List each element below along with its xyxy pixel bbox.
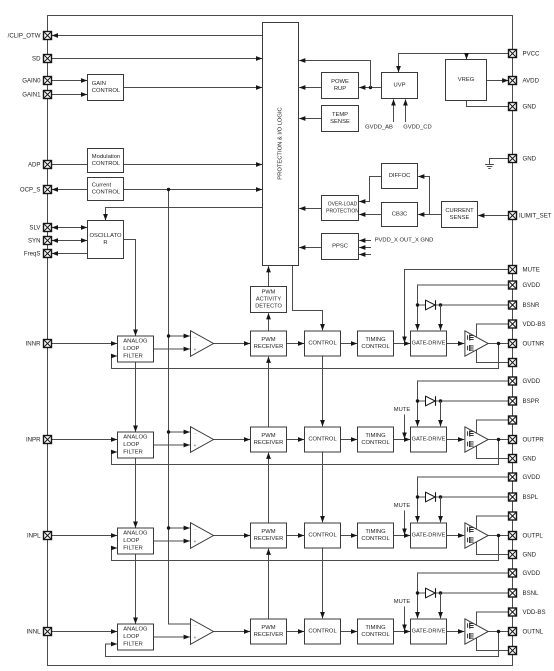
wire PVCC pin to UVP top xyxy=(399,54,509,73)
wire VREG output to AVDD pin xyxy=(487,80,509,82)
svg-text:CONTROL: CONTROL xyxy=(92,161,121,167)
wire SYN pin to oscillator (bidirectional) xyxy=(52,240,87,242)
svg-text:CONTROL: CONTROL xyxy=(308,341,337,347)
svg-text:ANALOG: ANALOG xyxy=(123,531,148,537)
wire bootstrap to gate-drive 3 top xyxy=(440,497,442,522)
wire GAIN0 pin to gain control xyxy=(52,80,88,82)
svg-text:TIMING: TIMING xyxy=(365,337,386,343)
svg-text:GND: GND xyxy=(523,155,537,162)
junction UVP output branch xyxy=(369,86,372,89)
svg-text:PWM: PWM xyxy=(261,625,275,631)
wire comparator 2 output to PWM receiver 2 xyxy=(214,439,251,441)
junction BSNR line / diode cathode row 1 xyxy=(439,303,442,306)
wire PWM receiver 2 to control 2 xyxy=(287,439,305,441)
wire bootstrap to gate-drive 1 top xyxy=(440,305,442,330)
svg-text:CONTROL: CONTROL xyxy=(361,344,390,350)
svg-text:GVDD: GVDD xyxy=(523,570,541,577)
pin (unlabeled) xyxy=(509,512,517,520)
diode bootstrap D2 xyxy=(426,396,436,406)
svg-text:FILTER: FILTER xyxy=(123,353,143,359)
wire control bus 1 to 2 xyxy=(322,356,324,426)
wire BSPR pin to bootstrap diode 2 cathode xyxy=(436,400,509,402)
svg-text:FILTER: FILTER xyxy=(123,545,143,551)
wire gate-drive 4 to output stage 4 xyxy=(447,631,465,633)
pin GAIN1 xyxy=(44,91,52,99)
svg-text:PWM: PWM xyxy=(261,529,275,535)
junction OUTNR feedback tap xyxy=(497,342,500,345)
wire comparator 4 output to PWM receiver 4 xyxy=(214,631,251,633)
wire protection logic down to control 1 xyxy=(293,266,323,331)
wire output-stage supply bracket row 1 xyxy=(477,324,509,363)
block gate-drive 4 xyxy=(411,619,447,644)
pin ADP xyxy=(44,161,52,169)
svg-text:PWM: PWM xyxy=(261,433,275,439)
svg-text:OUTPL: OUTPL xyxy=(523,532,544,539)
svg-text:CURRENT: CURRENT xyxy=(445,208,474,214)
svg-text:+: + xyxy=(194,443,197,448)
pin /CLIP_OTW xyxy=(44,32,52,40)
wire analog loop filter 1 to comparator 1 non-inverting input xyxy=(154,348,190,350)
block PWM receiver 3 xyxy=(251,523,287,548)
pin AVDD xyxy=(509,77,517,85)
wire PWM receiver 1 to control 1 xyxy=(287,343,305,345)
pin OUTNL xyxy=(509,628,517,636)
wire IN pin to analog loop filter 1 xyxy=(52,343,118,345)
wire bootstrap to gate-drive 4 top xyxy=(440,593,442,618)
wire PWM receiver 1 to activity detector xyxy=(268,313,270,331)
svg-text:RECEIVER: RECEIVER xyxy=(254,536,284,542)
ground symbol xyxy=(485,165,494,169)
svg-text:INNR: INNR xyxy=(26,340,41,347)
output power stage 2 xyxy=(465,427,488,452)
wire gate-drive 2 to output stage 2 xyxy=(447,439,465,441)
svg-text:CONTROL: CONTROL xyxy=(308,437,337,443)
pin GND xyxy=(509,455,517,463)
svg-text:RUP: RUP xyxy=(334,86,346,92)
pin BSPR xyxy=(509,397,517,405)
wire protection logic to oscillator top xyxy=(106,208,263,221)
wire UVP output to power-up block xyxy=(359,87,381,89)
wire UVP branch to protection logic xyxy=(299,61,370,88)
svg-text:BSPR: BSPR xyxy=(523,398,540,405)
wire GND pin to ground symbol xyxy=(490,159,509,164)
comparator 4 xyxy=(191,619,214,645)
svg-text:GATE-DRIVE: GATE-DRIVE xyxy=(412,629,446,635)
svg-text:+: + xyxy=(194,539,197,544)
svg-text:ACTIVITY: ACTIVITY xyxy=(256,297,281,303)
svg-text:PWM: PWM xyxy=(261,337,275,343)
wire GVDD_AB input to UVP bottom xyxy=(393,99,395,122)
pin PVCC xyxy=(509,50,517,58)
wire feedback from OUTPL to analog loop filter 3 xyxy=(112,536,499,561)
diode bootstrap D4 xyxy=(426,588,436,598)
pin GVDD xyxy=(509,281,517,289)
svg-text:Modulation: Modulation xyxy=(92,154,120,160)
pin VDD-BS xyxy=(509,608,517,616)
wire GVDD pin to gate-drive 1 top xyxy=(418,285,509,330)
pin OUTPR xyxy=(509,436,517,444)
wire GAIN1 pin to gain control xyxy=(52,94,88,96)
wire bootstrap diode 3 anode to GVDD line xyxy=(418,496,426,498)
wire SD pin to protection logic xyxy=(52,58,263,60)
svg-text:/CLIP_OTW: /CLIP_OTW xyxy=(8,32,41,39)
svg-text:CB3C: CB3C xyxy=(392,212,407,218)
svg-text:PVCC: PVCC xyxy=(523,50,541,57)
wire BSNR pin to bootstrap diode 1 cathode xyxy=(436,304,509,306)
svg-text:OCP_S: OCP_S xyxy=(20,186,41,193)
wire bootstrap diode 4 anode to GVDD line xyxy=(418,592,426,594)
block analog loop filter 1 xyxy=(118,336,154,362)
wire PVCC branch down to VREG top xyxy=(466,54,468,60)
svg-text:VREG: VREG xyxy=(458,77,475,83)
comparator 1 xyxy=(191,331,214,357)
diode bootstrap D3 xyxy=(426,492,436,502)
wire current bus branch to comparator 2 inverting input xyxy=(169,431,190,433)
svg-text:R: R xyxy=(103,240,107,246)
junction BSPR line / diode cathode row 2 xyxy=(439,399,442,402)
wire gain control output to protection logic xyxy=(124,87,263,89)
wire gate-drive 1 to output stage 1 xyxy=(447,343,465,345)
junction current bus row 3 xyxy=(167,526,170,529)
wire current sense output to CB3C xyxy=(418,214,441,216)
pin INPL xyxy=(44,532,52,540)
wire feedback from OUTPR to analog loop filter 2 xyxy=(112,440,499,465)
wire PWM activity detector to protection logic bottom xyxy=(268,266,270,286)
wire BSNL pin to bootstrap diode 4 cathode xyxy=(436,592,509,594)
block gain control xyxy=(88,75,124,101)
wire output stage 1 to OUTNR pin xyxy=(488,343,508,345)
wire current sense branch to DIFFOC xyxy=(418,177,429,215)
wire MUTE into gate-drive 2 input xyxy=(404,415,406,439)
wire control 1 to timing control 1 xyxy=(341,343,358,345)
svg-text:ANALOG: ANALOG xyxy=(123,435,148,441)
block control 4 xyxy=(305,619,341,644)
block timing control 4 xyxy=(358,619,394,644)
svg-text:+: + xyxy=(194,347,197,352)
svg-text:INPL: INPL xyxy=(27,532,41,539)
output power stage 4 xyxy=(465,619,488,644)
wire output stage 4 to OUTNL pin xyxy=(488,631,508,633)
wire GVDD pin to gate-drive 4 top xyxy=(418,573,509,618)
wire PWM receiver 4 to control 4 xyxy=(287,631,305,633)
wire output-stage supply bracket row 3 xyxy=(477,516,509,555)
svg-text:CONTROL: CONTROL xyxy=(361,440,390,446)
junction BSNL line / diode cathode row 4 xyxy=(439,591,442,594)
svg-text:LOOP: LOOP xyxy=(123,538,139,544)
svg-text:PPSC: PPSC xyxy=(332,244,348,250)
svg-text:CONTROL: CONTROL xyxy=(308,629,337,635)
block temp sense xyxy=(322,106,359,132)
wire current control output to OCP_S pin xyxy=(52,189,88,191)
block oscillator xyxy=(88,221,124,259)
pin SLV xyxy=(44,224,52,232)
wire oscillator output down to analog loop filter 1 xyxy=(124,240,136,336)
wire BSPL pin to bootstrap diode 3 cathode xyxy=(436,496,509,498)
wire bootstrap diode 2 anode to GVDD line xyxy=(418,400,426,402)
block over-load protection xyxy=(322,196,360,221)
wire timing control 4 to gate-drive 4 xyxy=(394,631,411,633)
block analog loop filter 3 xyxy=(118,528,154,554)
block UVP xyxy=(382,73,418,99)
junction GVDD line / diode anode row 4 xyxy=(416,591,419,594)
wire current bus branch to comparator 3 inverting input xyxy=(169,527,190,529)
svg-text:CONTROL: CONTROL xyxy=(92,88,121,94)
svg-text:GND: GND xyxy=(523,103,537,110)
wire DIFFOC output to over-load protection xyxy=(359,177,381,202)
wire output stage 2 to OUTPR pin xyxy=(488,439,508,441)
svg-text:CONTROL: CONTROL xyxy=(361,632,390,638)
block gate-drive 1 xyxy=(411,331,447,356)
wire PWM receiver 4 up to PWM receiver 3 xyxy=(268,549,270,619)
svg-text:TIMING: TIMING xyxy=(365,529,386,535)
svg-text:OUTNL: OUTNL xyxy=(523,628,544,635)
svg-text:GATE-DRIVE: GATE-DRIVE xyxy=(412,533,446,539)
pin GAIN0 xyxy=(44,77,52,85)
svg-text:CONTROL: CONTROL xyxy=(92,190,121,196)
wire analog loop filter 3 to comparator 3 non-inverting input xyxy=(154,540,190,542)
wire output-stage supply bracket row 4 xyxy=(477,612,509,651)
svg-text:POWE: POWE xyxy=(331,79,349,85)
svg-text:GVDD: GVDD xyxy=(523,474,541,481)
wire /CLIP_OTW output from protection logic to pin xyxy=(52,35,263,37)
wire IN pin to analog loop filter 2 xyxy=(52,439,118,441)
svg-text:FILTER: FILTER xyxy=(123,449,143,455)
wire VREG bottom to GND pin xyxy=(467,101,509,107)
svg-text:+: + xyxy=(194,635,197,640)
pin GND xyxy=(509,103,517,111)
pin MUTE xyxy=(509,266,517,274)
block timing control 2 xyxy=(358,427,394,452)
wire current control bus down to comparator 4 inverting input xyxy=(169,190,191,625)
svg-text:TEMP: TEMP xyxy=(332,112,348,118)
svg-text:GAIN1: GAIN1 xyxy=(22,91,41,98)
svg-text:VDD-BS: VDD-BS xyxy=(523,609,546,616)
pin (unlabeled) xyxy=(509,359,517,367)
wire IN pin to analog loop filter 4 xyxy=(52,631,118,633)
wire analog loop filter 4 to comparator 4 non-inverting input xyxy=(154,636,190,638)
wire PVDD_X sense into PPSC xyxy=(359,240,371,242)
block protection and I/O logic xyxy=(263,23,299,266)
svg-text:SD: SD xyxy=(32,55,41,62)
svg-text:GVDD_CD: GVDD_CD xyxy=(403,125,431,131)
wire PWM receiver 3 up to PWM receiver 2 xyxy=(268,453,270,523)
svg-text:OVER-LOAD: OVER-LOAD xyxy=(328,202,358,208)
block PWM receiver 4 xyxy=(251,619,287,644)
block current sense xyxy=(442,202,478,228)
pin BSNL xyxy=(509,589,517,597)
wire PWM receiver 2 up to PWM receiver 1 xyxy=(268,357,270,427)
svg-text:PROTECTION & I/O LOGIC: PROTECTION & I/O LOGIC xyxy=(278,107,284,179)
wire OUT_X sense into PPSC xyxy=(359,247,371,249)
svg-text:PVDD_X OUT_X GND: PVDD_X OUT_X GND xyxy=(375,238,434,244)
block gate-drive 2 xyxy=(411,427,447,452)
wire oscillator bus ALF3 to ALF4 xyxy=(135,554,137,624)
wire analog loop filter 2 to comparator 2 non-inverting input xyxy=(154,444,190,446)
pin GVDD xyxy=(509,473,517,481)
wire comparator 1 output to PWM receiver 1 xyxy=(214,343,251,345)
wire timing control 1 to gate-drive 1 xyxy=(394,343,411,345)
pin INNL xyxy=(44,628,52,636)
svg-text:CONTROL: CONTROL xyxy=(308,533,337,539)
wire current bus branch to comparator 1 inverting input xyxy=(169,335,190,337)
block VREG xyxy=(446,60,487,101)
junction OUTPR feedback tap xyxy=(497,438,500,441)
pin BSPL xyxy=(509,493,517,501)
svg-text:TIMING: TIMING xyxy=(365,625,386,631)
pin BSNR xyxy=(509,301,517,309)
wire ADP pin to modulation control xyxy=(52,164,88,166)
pin GVDD xyxy=(509,377,517,385)
output power stage 1 xyxy=(465,331,488,356)
svg-text:GND: GND xyxy=(523,455,537,462)
svg-text:FILTER: FILTER xyxy=(123,641,143,647)
svg-text:ANALOG: ANALOG xyxy=(123,339,148,345)
svg-text:ADP: ADP xyxy=(28,161,41,168)
pin INNR xyxy=(44,340,52,348)
wire feedback from OUTNR to analog loop filter 1 xyxy=(112,344,499,369)
block control 1 xyxy=(305,331,341,356)
wire MUTE into gate-drive 3 input xyxy=(404,511,406,535)
svg-text:GVDD_AB: GVDD_AB xyxy=(365,125,393,131)
wire timing control 2 to gate-drive 2 xyxy=(394,439,411,441)
pin OUTPL xyxy=(509,532,517,540)
junction GVDD line / diode anode row 3 xyxy=(416,495,419,498)
wire PWM receiver 3 to control 3 xyxy=(287,535,305,537)
svg-text:OSCILLATO: OSCILLATO xyxy=(89,233,121,239)
svg-text:OUTNR: OUTNR xyxy=(523,340,545,347)
wire CB3C output to over-load protection xyxy=(359,214,381,216)
wire MUTE pin down to gate-drive 1 input xyxy=(405,270,509,343)
wire feedback from OUTNL to analog loop filter 4 xyxy=(106,632,499,657)
svg-text:LOOP: LOOP xyxy=(123,346,139,352)
junction OUTPL feedback tap xyxy=(497,534,500,537)
svg-text:GAIN: GAIN xyxy=(92,81,106,87)
svg-text:BSPL: BSPL xyxy=(523,494,539,501)
svg-text:GVDD: GVDD xyxy=(523,378,541,385)
comparator 2 xyxy=(191,427,214,453)
wire GVDD pin to gate-drive 3 top xyxy=(418,477,509,522)
svg-text:GND: GND xyxy=(523,551,537,558)
svg-text:RECEIVER: RECEIVER xyxy=(254,440,284,446)
junction current control output xyxy=(167,188,170,191)
wire comparator 3 output to PWM receiver 3 xyxy=(214,535,251,537)
wire over-load protection output to protection logic xyxy=(299,208,321,210)
pin OCP_S xyxy=(44,186,52,194)
svg-text:SLV: SLV xyxy=(29,224,41,231)
wire control bus 3 to 4 xyxy=(322,548,324,618)
diode bootstrap D1 xyxy=(426,300,436,310)
svg-text:GVDD: GVDD xyxy=(523,282,541,289)
svg-text:MUTE: MUTE xyxy=(394,407,411,413)
pin VDD-BS xyxy=(509,320,517,328)
wire GVDD pin to gate-drive 2 top xyxy=(418,381,509,426)
junction BSPL line / diode cathode row 3 xyxy=(439,495,442,498)
wire MUTE into gate-drive 4 input xyxy=(404,607,406,631)
wire IN pin to analog loop filter 3 xyxy=(52,535,118,537)
wire ILIMIT_SET pin to current sense xyxy=(478,215,508,217)
pin (unlabeled) xyxy=(509,416,517,424)
svg-text:INNL: INNL xyxy=(27,628,41,635)
svg-text:MUTE: MUTE xyxy=(394,503,411,509)
svg-text:MUTE: MUTE xyxy=(394,599,411,605)
wire oscillator bus ALF2 to ALF3 xyxy=(135,458,137,528)
block PWM receiver 2 xyxy=(251,427,287,452)
svg-text:BSNR: BSNR xyxy=(523,302,541,309)
svg-text:ANALOG: ANALOG xyxy=(123,627,148,633)
junction current bus row 2 xyxy=(167,430,170,433)
block analog loop filter 2 xyxy=(118,432,154,458)
svg-text:SENSE: SENSE xyxy=(330,119,350,125)
wire output stage 3 to OUTPL pin xyxy=(488,535,508,537)
svg-text:DETECTO: DETECTO xyxy=(255,304,282,310)
svg-text:RECEIVER: RECEIVER xyxy=(254,344,284,350)
wire power-up output to protection logic xyxy=(299,87,321,89)
wire oscillator to FreqS pin xyxy=(52,253,88,255)
wire control bus 2 to 3 xyxy=(322,452,324,522)
svg-text:UVP: UVP xyxy=(394,83,406,89)
wire bootstrap to gate-drive 2 top xyxy=(440,401,442,426)
block timing control 3 xyxy=(358,523,394,548)
svg-text:MUTE: MUTE xyxy=(523,266,540,273)
wire gate-drive 3 to output stage 3 xyxy=(447,535,465,537)
block PWM activity detector xyxy=(251,287,287,313)
svg-text:OUTPR: OUTPR xyxy=(523,436,545,443)
svg-text:LOOP: LOOP xyxy=(123,442,139,448)
svg-text:CONTROL: CONTROL xyxy=(361,536,390,542)
pin INPR xyxy=(44,436,52,444)
output power stage 3 xyxy=(465,523,488,548)
junction OUTNL feedback tap xyxy=(497,630,500,633)
pin (unlabeled) xyxy=(509,647,517,655)
junction GVDD line / diode anode row 2 xyxy=(416,399,419,402)
svg-text:SYN: SYN xyxy=(28,237,41,244)
svg-text:GATE-DRIVE: GATE-DRIVE xyxy=(412,437,446,443)
wire control 4 to timing control 4 xyxy=(341,631,358,633)
block control 3 xyxy=(305,523,341,548)
svg-text:GATE-DRIVE: GATE-DRIVE xyxy=(412,341,446,347)
pin OUTNR xyxy=(509,340,517,348)
block modulation control xyxy=(88,149,124,173)
svg-text:RECEIVER: RECEIVER xyxy=(254,632,284,638)
block analog loop filter 4 xyxy=(118,624,154,650)
junction GVDD line / diode anode row 1 xyxy=(416,303,419,306)
block PPSC xyxy=(322,234,359,260)
svg-text:SENSE: SENSE xyxy=(450,215,470,221)
pin SD xyxy=(44,55,52,63)
wire temp sense output to protection logic xyxy=(299,118,321,120)
svg-text:PROTECTION: PROTECTION xyxy=(326,208,359,214)
wire GND sense into PPSC xyxy=(359,254,371,256)
wire current control output to protection logic xyxy=(124,189,263,191)
wire GVDD_CD input to UVP bottom xyxy=(405,99,407,122)
svg-text:DIFFOC: DIFFOC xyxy=(389,173,411,179)
svg-text:PWM: PWM xyxy=(262,289,276,295)
wire PPSC output to protection logic xyxy=(299,247,321,249)
junction current bus row 1 xyxy=(167,334,170,337)
block DIFFOC xyxy=(382,164,418,189)
svg-text:INPR: INPR xyxy=(26,436,41,443)
svg-text:TIMING: TIMING xyxy=(365,433,386,439)
wire oscillator bus ALF1 to ALF2 xyxy=(135,362,137,432)
block power up xyxy=(322,73,359,99)
wire SLV pin to oscillator (bidirectional) xyxy=(52,227,87,229)
block gate-drive 3 xyxy=(411,523,447,548)
block control 2 xyxy=(305,427,341,452)
pin FreqS xyxy=(44,250,52,258)
pin GND xyxy=(509,551,517,559)
svg-text:AVDD: AVDD xyxy=(523,77,540,84)
block current control xyxy=(88,178,124,201)
